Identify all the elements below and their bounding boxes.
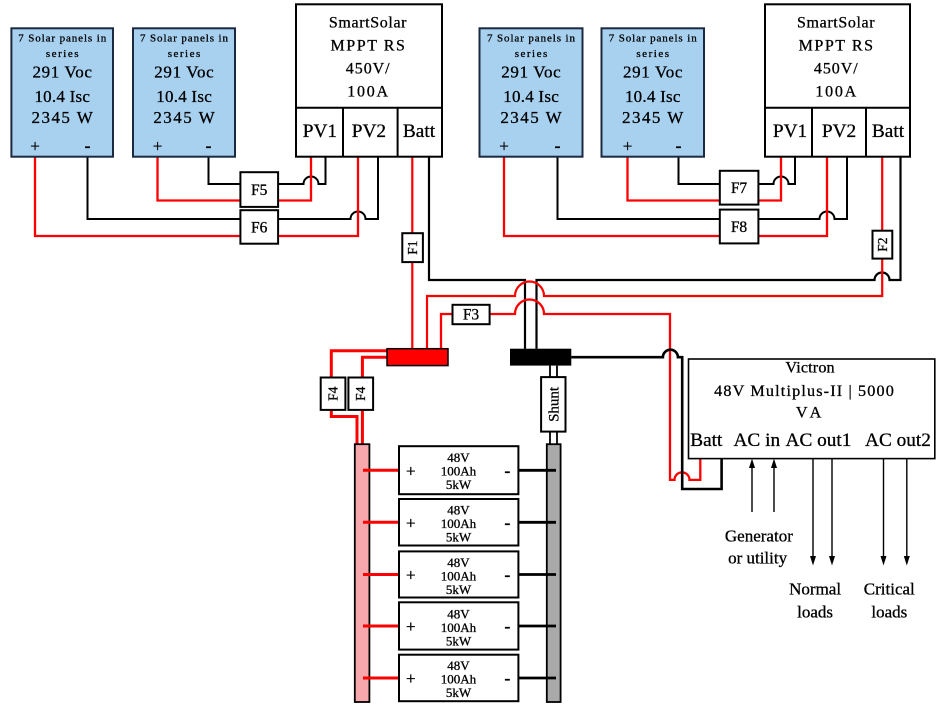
- svg-text:-: -: [206, 136, 212, 156]
- svg-text:MPPT RS: MPPT RS: [331, 37, 405, 54]
- svg-text:291 Voc: 291 Voc: [33, 63, 93, 82]
- inverter Victron: [689, 359, 935, 459]
- svg-text:MPPT RS: MPPT RS: [799, 37, 873, 54]
- MPPT controller U2: [765, 4, 910, 156]
- svg-text:F3: F3: [463, 307, 480, 324]
- battery B3: [399, 551, 518, 597]
- svg-text:2345 W: 2345 W: [622, 108, 684, 127]
- wire panel4 black to F7: [679, 157, 720, 184]
- svg-text:+: +: [406, 566, 416, 585]
- wire F6 to PV2 black with hop: [278, 157, 378, 219]
- svg-text:PV2: PV2: [352, 121, 386, 142]
- arrow AC out1 a: [810, 459, 816, 566]
- red busbar: [387, 349, 448, 366]
- svg-text:7 Solar panels in: 7 Solar panels in: [140, 32, 229, 44]
- battery positive bar: [355, 444, 370, 702]
- svg-text:Batt: Batt: [403, 121, 436, 142]
- wire left Batt black down to black busbar: [429, 157, 525, 349]
- wire F4 left to battery positive bar: [331, 410, 357, 444]
- svg-text:+: +: [406, 513, 416, 532]
- wire right Batt black down to black busbar with hop: [537, 157, 901, 349]
- fuse F4 left: [321, 378, 346, 410]
- svg-text:48V Multiplus-II | 5000: 48V Multiplus-II | 5000: [714, 382, 894, 400]
- svg-text:AC out1: AC out1: [786, 430, 852, 451]
- MPPT controller U1: [296, 4, 442, 156]
- svg-text:10.4 Isc: 10.4 Isc: [34, 87, 90, 106]
- black busbar: [510, 349, 571, 366]
- svg-text:SmartSolar: SmartSolar: [329, 15, 407, 32]
- svg-text:+: +: [499, 137, 509, 156]
- svg-text:VA: VA: [796, 404, 822, 422]
- wire F5 to PV1 black with hop: [278, 157, 326, 184]
- fuse F5: [240, 172, 278, 207]
- svg-text:+: +: [406, 617, 416, 636]
- shunt: [541, 377, 565, 432]
- fuse F8: [720, 210, 759, 244]
- svg-text:2345 W: 2345 W: [153, 108, 215, 127]
- svg-text:F1: F1: [405, 240, 420, 254]
- svg-text:Victron: Victron: [785, 359, 834, 377]
- solar panel array 4: [602, 28, 705, 156]
- svg-text:F2: F2: [875, 237, 890, 251]
- wire panel4 red to F7: [628, 157, 720, 201]
- wire F8 to right PV2 black with hop: [758, 157, 847, 219]
- svg-text:F4: F4: [353, 386, 368, 401]
- svg-text:+: +: [406, 461, 416, 480]
- svg-text:PV2: PV2: [822, 121, 856, 142]
- svg-text:10.4 Isc: 10.4 Isc: [625, 87, 681, 106]
- arrow AC out2 b: [904, 459, 910, 566]
- wire red busbar to right Batt red through F2 with double hop: [427, 157, 882, 349]
- battery negative bar: [547, 444, 561, 702]
- wire F7 to right PV1 black with hop: [758, 157, 795, 184]
- fuse F2: [873, 231, 893, 259]
- svg-text:+: +: [623, 137, 633, 156]
- battery B4: [399, 602, 518, 649]
- svg-text:Critical: Critical: [864, 580, 915, 599]
- wire red busbar through F3 to Victron Batt red: [441, 300, 700, 480]
- svg-text:10.4 Isc: 10.4 Isc: [156, 87, 212, 106]
- svg-text:AC in: AC in: [733, 430, 780, 451]
- svg-text:-: -: [85, 136, 91, 156]
- svg-text:Shunt: Shunt: [546, 386, 562, 422]
- svg-text:Batt: Batt: [872, 121, 905, 142]
- solar panel array 1: [11, 28, 113, 156]
- wire panel3 red to F8: [504, 157, 720, 236]
- svg-text:2345 W: 2345 W: [500, 108, 562, 127]
- svg-text:Normal: Normal: [789, 580, 841, 599]
- svg-text:F7: F7: [731, 180, 748, 197]
- solar panel array 3: [480, 28, 583, 156]
- wire battery4 negative link: [518, 625, 556, 628]
- svg-text:-: -: [555, 136, 561, 156]
- svg-text:-: -: [504, 460, 510, 480]
- svg-text:SmartSolar: SmartSolar: [797, 15, 875, 32]
- arrow AC out2 a: [881, 459, 887, 566]
- svg-text:PV1: PV1: [773, 121, 807, 142]
- svg-text:F5: F5: [251, 182, 268, 199]
- wire F8 to right PV2 red: [758, 157, 827, 236]
- svg-text:291 Voc: 291 Voc: [501, 63, 561, 82]
- fuse F7: [720, 171, 759, 205]
- svg-text:F4: F4: [326, 386, 341, 401]
- solar panel array 2: [133, 28, 235, 156]
- svg-text:7 Solar panels in: 7 Solar panels in: [487, 32, 576, 44]
- svg-text:7 Solar panels in: 7 Solar panels in: [609, 32, 698, 44]
- wire F7 to right PV1 red: [758, 157, 781, 201]
- wire battery5 positive link: [363, 677, 399, 680]
- svg-text:-: -: [504, 565, 510, 585]
- fuse F3: [453, 305, 490, 324]
- wire F6 to PV2 red: [278, 157, 358, 236]
- svg-text:Batt: Batt: [690, 430, 723, 451]
- wire battery5 negative link: [518, 677, 556, 680]
- svg-text:100A: 100A: [815, 83, 856, 100]
- arrow AC in 1: [749, 459, 755, 512]
- svg-text:10.4 Isc: 10.4 Isc: [503, 87, 559, 106]
- wire battery3 positive link: [363, 573, 399, 576]
- battery link wires: [363, 470, 556, 678]
- wire battery3 negative link: [518, 573, 556, 576]
- label normal loads: [789, 580, 841, 622]
- wire F4 right to battery positive bar: [361, 410, 364, 444]
- svg-text:-: -: [504, 512, 510, 532]
- wire panel2 red to F5: [158, 157, 241, 201]
- svg-text:450V/: 450V/: [346, 60, 390, 77]
- wire battery4 positive link: [363, 625, 399, 628]
- wire panel1 red to F6: [35, 157, 240, 236]
- svg-text:5kW: 5kW: [446, 477, 472, 492]
- battery B2: [399, 499, 518, 546]
- wire panel2 black to F5: [209, 157, 241, 184]
- svg-text:+: +: [406, 669, 416, 688]
- wire battery1 positive link: [363, 469, 399, 472]
- svg-text:-: -: [504, 616, 510, 636]
- fuse F1: [402, 233, 423, 262]
- svg-text:291 Voc: 291 Voc: [154, 63, 214, 82]
- svg-text:5kW: 5kW: [446, 685, 472, 700]
- wire battery2 negative link: [518, 521, 556, 524]
- svg-text:+: +: [153, 137, 163, 156]
- wire black busbar to Victron Batt black with hop: [571, 350, 721, 489]
- wire panel3 black to F8: [558, 157, 720, 219]
- svg-text:loads: loads: [797, 603, 833, 622]
- wire panel1 black to F6: [88, 157, 241, 219]
- svg-text:7 Solar panels in: 7 Solar panels in: [18, 32, 106, 44]
- label critical loads: [864, 580, 915, 622]
- svg-text:100A: 100A: [347, 83, 388, 100]
- svg-text:5kW: 5kW: [446, 633, 472, 648]
- fuse F4 right: [348, 378, 373, 410]
- wire red busbar to F4 left: [331, 351, 387, 378]
- arrow AC in 2: [771, 459, 777, 512]
- wire shunt twin leads: [550, 366, 557, 445]
- svg-text:AC out2: AC out2: [865, 430, 931, 451]
- svg-text:-: -: [676, 136, 682, 156]
- arrow AC out1 b: [829, 459, 835, 566]
- wire battery2 positive link: [363, 521, 399, 524]
- svg-text:+: +: [30, 137, 40, 156]
- svg-text:F6: F6: [251, 219, 268, 236]
- svg-text:5kW: 5kW: [446, 530, 472, 545]
- svg-text:291 Voc: 291 Voc: [623, 63, 683, 82]
- wire left Batt red through F1 to red busbar: [411, 157, 413, 349]
- wire red busbar to F4 right: [362, 357, 387, 377]
- battery B1: [399, 446, 518, 494]
- svg-text:450V/: 450V/: [814, 60, 858, 77]
- svg-text:or utility: or utility: [728, 549, 788, 568]
- svg-text:5kW: 5kW: [446, 582, 472, 597]
- svg-text:PV1: PV1: [303, 121, 337, 142]
- svg-text:F8: F8: [731, 219, 748, 236]
- fuse F6: [240, 210, 278, 244]
- battery B5: [399, 655, 518, 702]
- svg-text:2345 W: 2345 W: [32, 108, 94, 127]
- svg-text:Generator: Generator: [725, 527, 793, 546]
- svg-text:loads: loads: [871, 603, 907, 622]
- wire F5 to PV1 red: [278, 157, 311, 201]
- wire battery1 negative link: [518, 469, 556, 472]
- svg-text:-: -: [504, 668, 510, 688]
- label generator: [725, 527, 793, 568]
